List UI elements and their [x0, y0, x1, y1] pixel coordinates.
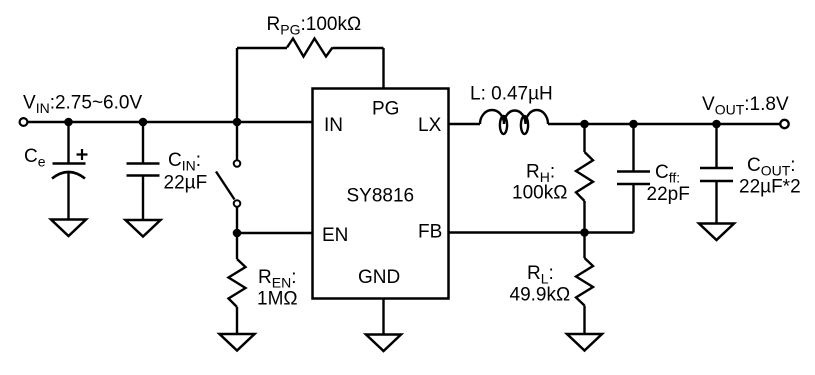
junction RH top: [580, 120, 589, 129]
svg-text:RL:: RL:: [527, 263, 554, 287]
junction COUT top: [712, 120, 721, 129]
label REN value: [257, 267, 298, 310]
junction Ce: [64, 118, 73, 127]
wire COUT top lead: [715, 124, 717, 168]
svg-text:VIN:2.75~6.0V: VIN:2.75~6.0V: [23, 93, 142, 117]
wire Ce bottom lead: [67, 174, 69, 221]
wire LX to VOUT: [548, 123, 781, 125]
svg-text:22µF*2: 22µF*2: [739, 177, 801, 198]
wire RH top lead: [583, 124, 585, 152]
wire CIN bottom lead: [142, 176, 144, 221]
wire COUT bottom lead: [715, 181, 717, 224]
wire FB line: [449, 231, 634, 233]
wire EN: [237, 232, 313, 234]
svg-text:SY8816: SY8816: [347, 186, 415, 207]
wire REN bottom lead: [236, 307, 238, 335]
ground REN: [220, 334, 255, 351]
junction Cff top: [629, 120, 638, 129]
svg-text:49.9kΩ: 49.9kΩ: [510, 285, 571, 306]
wire RPG top left: [237, 47, 287, 49]
label RH value: [512, 162, 567, 204]
resistor RPG: [287, 39, 333, 57]
resistor RL: [576, 258, 593, 306]
capacitor CIN: [127, 164, 160, 176]
label CIN value: [164, 150, 208, 194]
ground CIN: [126, 220, 161, 237]
svg-text:VOUT:1.8V: VOUT:1.8V: [702, 94, 789, 118]
wire RH bottom lead: [583, 201, 585, 233]
svg-text:CIN:: CIN:: [168, 150, 201, 174]
label RL value: [510, 263, 571, 306]
junction EN: [233, 229, 242, 238]
svg-text:Ce: Ce: [24, 146, 46, 170]
label Cff value: [647, 162, 690, 205]
wire CIN top lead: [142, 122, 144, 164]
terminal VIN input: [20, 118, 28, 126]
wire REN top lead: [236, 233, 238, 259]
svg-text:GND: GND: [358, 267, 400, 288]
junction switch branch: [233, 118, 242, 127]
wire RPG top right: [333, 47, 384, 49]
terminal VOUT output: [780, 120, 788, 128]
svg-text:100kΩ: 100kΩ: [512, 183, 567, 204]
resistor REN: [229, 259, 246, 307]
wire Ce top lead: [67, 122, 69, 163]
svg-text:Cff:: Cff:: [655, 162, 680, 186]
wire RPG left vertical: [236, 48, 238, 122]
capacitor Cff: [617, 172, 650, 185]
wire Cff bottom lead: [632, 184, 634, 233]
svg-text:L: 0.47µH: L: 0.47µH: [470, 84, 553, 105]
svg-text:COUT:: COUT:: [747, 155, 796, 179]
label COUT value: [739, 155, 801, 198]
wire VIN input rail: [28, 121, 314, 123]
junction FB RL: [580, 228, 589, 237]
svg-text:RPG:100kΩ: RPG:100kΩ: [267, 14, 362, 38]
wire RL bottom lead: [583, 306, 585, 335]
wire switch top lead: [236, 122, 238, 160]
svg-text:PG: PG: [372, 99, 399, 120]
wire switch bottom lead: [236, 207, 238, 233]
wire GND pin lead: [382, 299, 384, 336]
resistor RH: [576, 152, 593, 201]
capacitor Ce: [52, 149, 88, 179]
op-amp U1 SY8816 box: [313, 89, 449, 299]
wire RL top lead: [583, 233, 585, 259]
svg-text:EN: EN: [322, 225, 348, 246]
svg-text:LX: LX: [418, 115, 442, 136]
svg-text:22pF: 22pF: [647, 184, 690, 205]
svg-text:1MΩ: 1MΩ: [257, 289, 298, 310]
svg-text:REN:: REN:: [258, 267, 296, 291]
svg-text:RH:: RH:: [526, 162, 555, 186]
ground RL: [567, 334, 602, 351]
ground Ce: [51, 220, 86, 237]
svg-text:22µF: 22µF: [164, 173, 208, 194]
inductor L: [480, 110, 548, 134]
wire LX lead: [449, 123, 481, 125]
svg-text:FB: FB: [418, 222, 442, 243]
wire PG pin vertical: [382, 48, 384, 90]
ground COUT: [699, 224, 734, 241]
capacitor COUT: [700, 168, 733, 181]
junction CIN: [139, 118, 148, 127]
ground U1: [366, 335, 401, 352]
switch S1: [216, 160, 240, 207]
wire Cff top lead: [632, 124, 634, 172]
svg-text:IN: IN: [324, 115, 343, 136]
